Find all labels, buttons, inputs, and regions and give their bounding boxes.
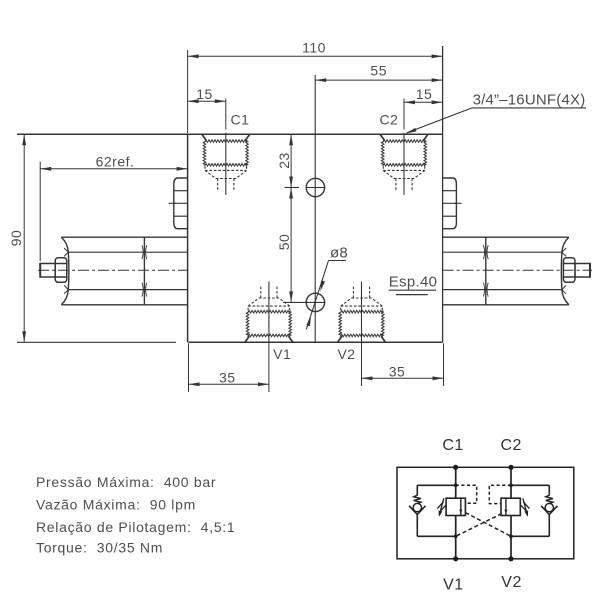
left cartridge centerline — [38, 269, 188, 271]
valve block body outline — [17, 46, 443, 342]
spec text torque — [36, 539, 163, 555]
wire C2-V2 main line — [510, 467, 512, 559]
svg-text:90: 90 — [8, 230, 24, 247]
port V1 threaded bore — [245, 282, 293, 344]
thread callout 3/4-16UNF(4X) — [406, 92, 586, 134]
right cartridge adjuster square — [563, 258, 575, 283]
junction node left lower — [454, 534, 458, 538]
block vertical centerline — [314, 75, 316, 342]
node C1 — [453, 465, 458, 470]
leader o8 — [306, 245, 348, 330]
label C2 — [380, 112, 399, 128]
label Esp.40 — [389, 274, 438, 295]
spec text pilot ratio — [36, 519, 235, 535]
schematic label V1 — [443, 577, 464, 594]
svg-text:C2: C2 — [380, 112, 399, 128]
check valve right ball — [545, 503, 553, 511]
svg-text:V2: V2 — [337, 346, 355, 362]
node C2 — [508, 465, 513, 470]
label V2 — [337, 346, 355, 362]
wire C1-V1 main line — [455, 467, 457, 559]
svg-text:C1: C1 — [231, 112, 250, 128]
pilot line valve 1 — [456, 485, 477, 503]
svg-text:110: 110 — [302, 39, 326, 55]
dimension 62ref — [40, 154, 187, 262]
port C2 threaded bore — [380, 133, 428, 195]
svg-text:Pressão Máxima: 400 bar: Pressão Máxima: 400 bar — [36, 474, 216, 490]
right side plug nut — [443, 178, 462, 229]
schematic label C2 — [500, 437, 521, 454]
pilot line valve 2 — [489, 485, 511, 503]
dimension 23 and 50 — [276, 134, 293, 302]
dimension 35 right — [362, 343, 444, 386]
dimension 15 right — [404, 86, 443, 130]
pilot valve 1 body — [446, 498, 465, 515]
svg-text:Torque: 30/35 Nm: Torque: 30/35 Nm — [36, 539, 163, 555]
pilot valve 2 body — [501, 498, 520, 515]
hole circle upper o8 — [285, 178, 326, 196]
cross pilot line 1 to V2 — [465, 513, 511, 537]
spec text flow — [36, 496, 196, 512]
right cartridge adjuster stem — [563, 263, 590, 278]
svg-text:35: 35 — [389, 363, 406, 379]
wire left bypass branch — [417, 485, 455, 536]
check valve right seat — [541, 506, 557, 515]
svg-text:23: 23 — [276, 152, 292, 169]
label C1 — [231, 112, 250, 128]
dimension 90 — [8, 134, 26, 342]
junction node right lower — [509, 534, 513, 538]
node V1 — [453, 556, 458, 561]
spec text pressure — [36, 474, 216, 490]
dimension 110 — [188, 39, 443, 133]
right cartridge centerline — [443, 269, 592, 271]
svg-text:C1: C1 — [442, 437, 463, 454]
left cartridge adjuster stem — [40, 263, 67, 278]
svg-text:15: 15 — [196, 86, 213, 102]
svg-text:50: 50 — [276, 234, 292, 251]
svg-text:62ref.: 62ref. — [96, 154, 135, 170]
left side plug nut — [169, 178, 188, 229]
node V2 — [508, 556, 513, 561]
schematic label V2 — [501, 574, 522, 591]
junction node left upper — [454, 483, 458, 487]
schematic envelope — [397, 467, 574, 559]
dimension 55 — [315, 63, 442, 82]
check valve left ball — [413, 503, 421, 511]
svg-text:V2: V2 — [501, 574, 522, 591]
svg-text:55: 55 — [370, 63, 387, 79]
port C1 threaded bore — [202, 133, 250, 195]
svg-text:Vazão Máxima: 90 lpm: Vazão Máxima: 90 lpm — [36, 496, 196, 512]
svg-text:C2: C2 — [500, 437, 521, 454]
svg-text:V1: V1 — [443, 577, 464, 594]
svg-text:35: 35 — [219, 369, 236, 385]
label V1 — [273, 346, 291, 362]
svg-text:ø8: ø8 — [330, 245, 348, 262]
check valve right spring — [546, 495, 553, 504]
junction node right upper — [509, 483, 513, 487]
left cartridge adjuster square — [55, 258, 67, 283]
check valve left seat — [409, 506, 425, 515]
svg-text:3/4”–16UNF(4X): 3/4”–16UNF(4X) — [473, 92, 586, 109]
wire right bypass branch — [511, 485, 549, 536]
pilot valve 1 spring and adjuster — [437, 498, 445, 517]
svg-text:Esp.40: Esp.40 — [389, 274, 438, 291]
svg-text:Relação de Pilotagem: 4,5:1: Relação de Pilotagem: 4,5:1 — [36, 519, 235, 535]
schematic label C1 — [442, 437, 463, 454]
left cartridge hex body — [61, 237, 187, 305]
svg-text:15: 15 — [416, 86, 433, 102]
hole circle lower o8 — [283, 293, 326, 311]
dimension 35 left — [189, 343, 269, 392]
port V2 threaded bore — [338, 282, 386, 344]
svg-text:V1: V1 — [273, 346, 291, 362]
pilot valve 2 spring and adjuster — [521, 498, 529, 517]
check valve left spring — [414, 495, 421, 504]
dimension 15 left — [188, 86, 226, 130]
cross pilot line 2 to V1 — [456, 514, 502, 537]
right cartridge hex body — [443, 237, 569, 305]
